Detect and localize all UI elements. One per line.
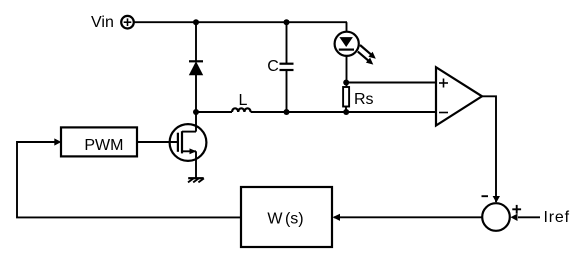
junction bottom rail / Rs [343, 109, 349, 115]
summing junction S1 [482, 203, 510, 231]
label plus at summing junction [512, 205, 521, 214]
block PWM [61, 127, 137, 156]
LED light arrow 2 [358, 52, 374, 65]
wire capacitor lower [286, 70, 288, 112]
wire PWM output to gate [137, 141, 178, 143]
wire inductor to op-amp minus input [251, 111, 436, 113]
svg-text:C: C [267, 58, 279, 75]
wire top rail Vin to LED [134, 21, 347, 23]
arrow into summing junction right [511, 214, 518, 221]
wire capacitor upper [286, 22, 288, 63]
node LED/Rs junction [343, 80, 349, 86]
svg-text:Rs: Rs [354, 91, 374, 108]
wire W(s) output feedback to PWM [17, 142, 241, 217]
terminal Vin [121, 16, 134, 29]
junction top rail / capacitor C [284, 19, 290, 25]
LED light arrow 1 [360, 45, 376, 59]
diode D1 [189, 61, 203, 75]
wire Rs top node to op-amp plus input [346, 82, 436, 84]
wire MOSFET drain to switch node [195, 112, 197, 132]
ground [188, 178, 204, 182]
wire diode branch upper [195, 22, 197, 62]
svg-text:W(s): W(s) [267, 211, 303, 228]
svg-text:Vin: Vin [91, 14, 114, 31]
junction bottom rail / capacitor C [284, 109, 290, 115]
wire MOSFET source to ground [195, 151, 197, 178]
wire LED to Rs node [346, 56, 348, 87]
wire switch node to inductor [196, 111, 232, 113]
capacitor C [280, 64, 294, 70]
node switch (junction diode / L / MOSFET drain) [193, 109, 199, 115]
label minus at summing junction [482, 195, 489, 197]
junction top rail / diode [193, 19, 199, 25]
arrow into summing junction top [493, 196, 500, 203]
inductor L [232, 108, 251, 112]
op-amp U1 [436, 67, 482, 125]
resistor Rs [343, 87, 349, 107]
svg-text:PWM: PWM [84, 137, 123, 154]
block W(s) [241, 187, 332, 247]
wire Iref to summing junction [518, 216, 540, 218]
svg-text:L: L [239, 92, 248, 109]
transistor Q1 MOSFET [170, 124, 207, 161]
LED D2 [335, 32, 359, 56]
wire top rail corner down to LED [346, 22, 348, 32]
svg-text:Iref: Iref [544, 209, 570, 226]
arrow into PWM left edge [54, 138, 61, 145]
arrow into W(s) right edge [333, 214, 341, 221]
wire Rs bottom [345, 107, 347, 113]
wire summing junction to W(s) [334, 216, 482, 218]
wire op-amp output [482, 96, 496, 202]
wire diode branch lower [195, 75, 197, 112]
